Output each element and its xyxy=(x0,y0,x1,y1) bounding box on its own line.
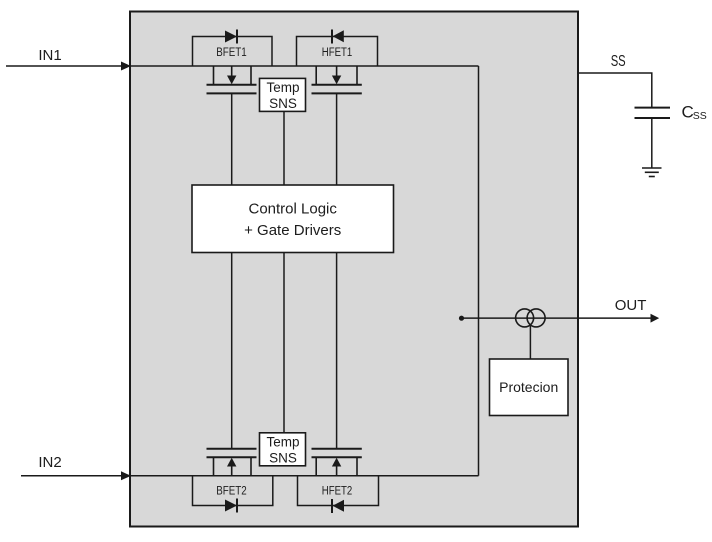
wire CSS to ground xyxy=(651,118,653,168)
transistor HFET1 (power MOSFET) xyxy=(312,66,362,93)
svg-text:SNS: SNS xyxy=(269,451,297,466)
wire control logic to BFET2 gate xyxy=(231,253,233,450)
wire bottom rail (IN2 net) xyxy=(130,475,479,477)
diode of HFET2 (pointing left) xyxy=(333,500,344,512)
block Control Logic + Gate Drivers xyxy=(192,185,394,253)
wire current sensor to protection block xyxy=(529,325,531,359)
wire HFET2 body-diode loop xyxy=(298,476,379,506)
svg-text:IN1: IN1 xyxy=(38,47,61,64)
ground xyxy=(642,168,662,177)
wire BFET1 gate to control logic xyxy=(231,93,233,185)
block Temp SNS (top) xyxy=(260,78,306,111)
wire BFET1 body-diode loop xyxy=(193,37,273,67)
svg-text:BFET2: BFET2 xyxy=(216,483,247,497)
diode of BFET1 (pointing right) xyxy=(225,31,237,43)
wire HFET1 gate to control logic xyxy=(336,93,338,185)
svg-text:HFET1: HFET1 xyxy=(322,45,353,59)
svg-text:Temp: Temp xyxy=(266,434,299,449)
transistor BFET1 (power MOSFET) xyxy=(207,66,257,93)
svg-text:OUT: OUT xyxy=(615,297,647,314)
svg-text:Protecion: Protecion xyxy=(499,379,558,395)
wire IN2 lead xyxy=(21,475,122,477)
wire IN1 lead xyxy=(6,65,122,67)
wire SS xyxy=(579,73,652,108)
svg-text:Temp: Temp xyxy=(266,80,299,95)
node junction dot on OUT wire xyxy=(459,316,464,321)
wire BFET2 body-diode loop xyxy=(193,476,273,506)
IC block body U1 xyxy=(130,12,578,527)
svg-text:BFET1: BFET1 xyxy=(216,45,247,59)
wire top Temp SNS to control logic xyxy=(283,111,285,185)
wire OUT xyxy=(462,317,653,319)
wire control logic to HFET2 gate xyxy=(336,253,338,450)
capacitor CSS xyxy=(635,107,671,109)
svg-text:IN2: IN2 xyxy=(38,454,61,471)
diode of HFET1 (pointing left) xyxy=(333,30,344,42)
svg-text:+ Gate Drivers: + Gate Drivers xyxy=(244,222,341,239)
wire control logic to bottom Temp SNS xyxy=(283,253,285,433)
junction arrowhead OUT xyxy=(651,314,660,323)
block Temp SNS (bottom) xyxy=(260,433,306,466)
svg-text:SS: SS xyxy=(693,110,707,122)
transistor BFET2 (power MOSFET, mirrored) xyxy=(207,449,257,476)
transistor HFET2 (power MOSFET, mirrored) xyxy=(312,449,362,476)
junction arrowhead into block (IN2) xyxy=(121,471,131,480)
svg-text:HFET2: HFET2 xyxy=(322,483,353,497)
svg-text:SNS: SNS xyxy=(269,96,297,111)
wire top rail (IN1 net) xyxy=(130,65,479,67)
svg-text:Control Logic: Control Logic xyxy=(249,201,338,218)
diode of BFET2 (pointing right) xyxy=(225,500,237,512)
junction arrowhead into block (IN1) xyxy=(121,62,131,71)
current sensor (overlapping circles) xyxy=(516,309,534,327)
wire HFET1 body-diode loop xyxy=(297,37,378,67)
svg-text:SS: SS xyxy=(611,53,626,70)
wire right-side vertical (rails to OUT node) xyxy=(478,66,480,476)
block Protecion xyxy=(490,359,569,416)
